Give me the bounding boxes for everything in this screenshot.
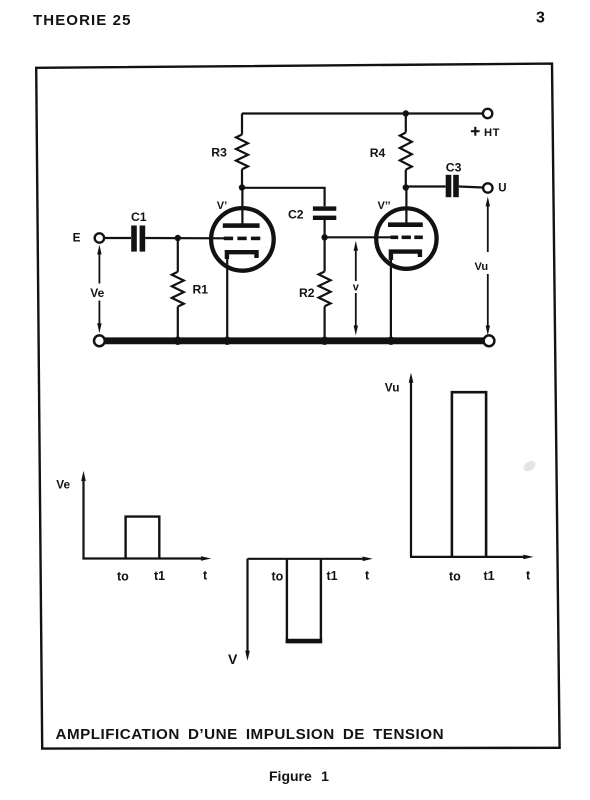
- graph V: vertical axis (down): [245, 559, 250, 661]
- svg-text:V’: V’: [217, 200, 227, 212]
- node: V'' grid junction: [321, 234, 327, 240]
- label R1: [193, 283, 209, 297]
- graph Ve: label t1: [154, 569, 165, 583]
- svg-text:t: t: [526, 569, 531, 583]
- graph Vu: label t: [526, 569, 531, 583]
- resistor R4: [400, 114, 412, 188]
- label V': [217, 200, 227, 212]
- svg-text:t1: t1: [154, 569, 165, 583]
- resistor R2: [319, 237, 331, 338]
- figure caption AMPLIFICATION D'UNE IMPULSION DE TENSION: [56, 726, 445, 743]
- svg-text:to: to: [272, 570, 284, 584]
- graph Vu: label Vu: [385, 381, 400, 395]
- wire: E to C1: [104, 237, 131, 239]
- label C2: [288, 207, 304, 221]
- node: R4 top junction: [403, 110, 409, 116]
- svg-text:THEORIE 25: THEORIE 25: [33, 12, 132, 29]
- graph V: label t: [365, 569, 370, 583]
- svg-text:V’’: V’’: [378, 200, 391, 212]
- graph Ve: horizontal axis: [82, 556, 211, 561]
- triode V'': [376, 188, 436, 339]
- wire: grid of V'': [325, 236, 392, 238]
- wire: coupling to C2: [242, 188, 325, 207]
- triode V': [211, 188, 274, 339]
- svg-text:C2: C2: [288, 207, 304, 221]
- svg-text:R4: R4: [370, 146, 386, 160]
- svg-text:R3: R3: [211, 145, 227, 159]
- node: R2 ground: [320, 337, 328, 345]
- graph Vu: pulse: [452, 392, 486, 557]
- node: V' anode junction: [239, 184, 245, 190]
- terminal U: [483, 183, 492, 192]
- svg-text:to: to: [449, 570, 461, 584]
- graph V: label V: [228, 651, 238, 667]
- label + HT: [471, 127, 500, 139]
- svg-text:t: t: [203, 569, 208, 583]
- graph Ve: label to: [117, 570, 129, 584]
- capacitor C2: [313, 206, 336, 237]
- svg-text:R1: R1: [193, 283, 209, 297]
- measure arrow v: [354, 241, 358, 336]
- label U: [498, 182, 506, 194]
- scan smudge artifact: [522, 459, 538, 474]
- wire: C1 to grid V': [145, 237, 225, 240]
- graph V: pulse (negative): [286, 559, 323, 641]
- label E: [73, 231, 81, 245]
- capacitor C3: [446, 175, 483, 197]
- resistor R3: [236, 114, 248, 188]
- svg-text:C3: C3: [446, 160, 462, 174]
- node: V'' anode junction: [403, 184, 409, 190]
- terminal +HT: [483, 109, 492, 118]
- svg-text:t1: t1: [327, 569, 338, 583]
- svg-text:AMPLIFICATION D’UNE IMPULSION: AMPLIFICATION D’UNE IMPULSION DE TENSION: [56, 726, 445, 743]
- page number 3: [536, 10, 545, 27]
- graph Ve: label t: [203, 569, 208, 583]
- svg-text:R2: R2: [299, 286, 315, 300]
- measure arrow Vu: [486, 197, 490, 336]
- svg-text:Ve: Ve: [56, 478, 70, 492]
- svg-text:Vu: Vu: [385, 381, 400, 395]
- svg-text:V: V: [228, 651, 238, 667]
- node: R1 ground: [174, 337, 182, 345]
- svg-text:Figure 1: Figure 1: [269, 768, 329, 784]
- svg-text:t1: t1: [484, 569, 495, 583]
- graph V: horizontal axis: [248, 557, 373, 562]
- label v: [353, 282, 360, 294]
- label R3: [211, 145, 227, 159]
- node: grid junction R1: [175, 235, 181, 241]
- svg-text:HT: HT: [484, 127, 500, 139]
- graph V: label t1: [327, 569, 338, 583]
- figure border frame: [36, 64, 559, 749]
- label Ve: [90, 286, 104, 300]
- graph Vu: label to: [449, 570, 461, 584]
- label C1: [131, 210, 147, 224]
- label Vu (circuit): [475, 261, 489, 273]
- capacitor C1: [131, 226, 145, 252]
- wire: to C3: [406, 185, 446, 187]
- graph V: label to: [272, 570, 284, 584]
- page header title THEORIE 25: [33, 12, 132, 29]
- label V'': [378, 200, 391, 212]
- node: V'' cathode ground: [387, 337, 395, 345]
- label R2: [299, 286, 315, 300]
- svg-text:to: to: [117, 570, 129, 584]
- svg-text:C1: C1: [131, 210, 147, 224]
- graph Ve: pulse: [126, 517, 160, 559]
- measure arrow Ve: [97, 245, 101, 334]
- caption Figure 1: [269, 768, 329, 784]
- resistor R1: [172, 238, 184, 338]
- graph Vu: vertical axis: [409, 373, 414, 557]
- graph Ve: vertical axis: [81, 471, 86, 559]
- label R4: [370, 146, 386, 160]
- node: V' cathode ground: [223, 337, 231, 345]
- svg-text:t: t: [365, 569, 370, 583]
- graph Vu: label t1: [484, 569, 495, 583]
- svg-text:Ve: Ve: [90, 286, 104, 300]
- graph Vu: horizontal axis: [410, 555, 534, 560]
- svg-text:Vu: Vu: [475, 261, 489, 273]
- graph Ve: label Ve: [56, 478, 70, 492]
- svg-text:E: E: [73, 231, 81, 245]
- svg-text:U: U: [498, 182, 506, 194]
- label C3: [446, 160, 462, 174]
- wire: +HT top supply rail: [242, 112, 483, 114]
- ground terminal left: [94, 335, 105, 346]
- ground bus (thick): [104, 337, 484, 344]
- svg-text:v: v: [353, 282, 360, 294]
- ground terminal right: [484, 335, 495, 346]
- terminal E: [95, 233, 104, 242]
- svg-text:3: 3: [536, 10, 545, 27]
